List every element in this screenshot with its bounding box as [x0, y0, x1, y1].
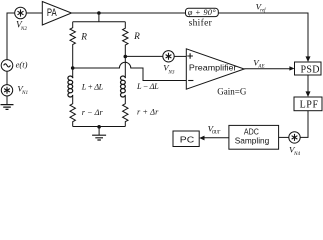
wire PSD to LPF with arrow [306, 75, 311, 97]
resistor r+dr (right) [123, 96, 159, 127]
wire bridge right mid to V_N3 [125, 55, 163, 57]
wire bridge left mid to preamp minus (with hop) [73, 62, 187, 80]
label V_AE [253, 57, 264, 69]
wire rail down to bridge top [98, 13, 100, 22]
resistor R (left) [70, 22, 87, 68]
wire preamp output to PSD with arrow [244, 66, 294, 70]
wire LPF down and left to V_N4 [300, 111, 308, 138]
node bridge bottom center [97, 125, 101, 129]
label V_N3 [163, 63, 175, 76]
svg-text:N2: N2 [20, 26, 28, 32]
node right bridge mid [124, 55, 128, 59]
noise source V_N1 [1, 85, 12, 96]
inductor L+dL (left) [68, 68, 104, 97]
wire V_N2 to PA [26, 12, 42, 14]
svg-text:AE: AE [257, 64, 264, 69]
wire shifter to corner then down to PSD with arrow [218, 13, 310, 62]
wire e(t) to V_N1 [6, 71, 8, 84]
svg-text:PSD: PSD [301, 64, 320, 75]
wire bridge top connector [73, 21, 126, 23]
svg-text:LPF: LPF [300, 100, 319, 111]
svg-text:N1: N1 [21, 90, 28, 96]
node left bridge mid [71, 66, 75, 70]
svg-text:φ + 90°: φ + 90° [188, 8, 216, 17]
ground (left) [1, 96, 14, 109]
svg-text:shifer: shifer [189, 18, 213, 29]
noise source V_N3 [163, 51, 174, 62]
svg-text:PC: PC [180, 134, 194, 144]
svg-text:N4: N4 [293, 150, 300, 156]
phase shifter box [186, 8, 219, 17]
svg-text:L + ΔL: L + ΔL [81, 83, 104, 92]
wire PA output to shifter (top rail) [72, 12, 186, 14]
wire V_N3 to preamp plus [174, 55, 186, 57]
block LPF [294, 97, 322, 111]
noise source V_N4 [289, 132, 300, 143]
svg-text:r + Δr: r + Δr [137, 108, 159, 117]
label V_OUT [208, 124, 222, 136]
svg-text:N3: N3 [167, 69, 174, 75]
label V_N2 [16, 20, 27, 32]
svg-text:r − Δr: r − Δr [82, 108, 104, 117]
svg-text:ref: ref [260, 8, 266, 13]
ground (bridge) [92, 127, 106, 141]
inductor L-dL (right) [121, 57, 160, 97]
junction dot on top rail [97, 11, 101, 15]
block PSD [295, 62, 322, 75]
wire V_N4 to ADC [279, 136, 289, 138]
source e(t) [1, 60, 13, 72]
svg-text:e(t): e(t) [16, 59, 28, 69]
svg-text:L − ΔL: L − ΔL [136, 82, 159, 91]
wire left loop: top corner and left vertical [7, 13, 15, 60]
svg-text:Sampling: Sampling [235, 136, 270, 146]
label V_ref [256, 1, 266, 13]
label V_N1 [17, 84, 28, 96]
svg-text:OUT: OUT [212, 130, 221, 135]
noise source V_N2 [15, 7, 27, 19]
svg-text:PA: PA [47, 7, 57, 19]
svg-text:R: R [133, 32, 140, 42]
amplifier PA [42, 2, 71, 26]
svg-text:Gain=G: Gain=G [217, 86, 247, 96]
wire bridge bottom rail [73, 126, 126, 128]
svg-text:Preamplifier: Preamplifier [189, 62, 237, 72]
wire ADC to PC with arrow [199, 136, 229, 141]
op-amp preamplifier [186, 49, 244, 89]
resistor r-dr (left) [70, 96, 103, 127]
label V_N4 [289, 145, 300, 157]
block ADC Sampling [229, 125, 279, 149]
block PC [173, 131, 199, 147]
svg-text:R: R [80, 32, 87, 42]
resistor R (right) [123, 22, 141, 57]
